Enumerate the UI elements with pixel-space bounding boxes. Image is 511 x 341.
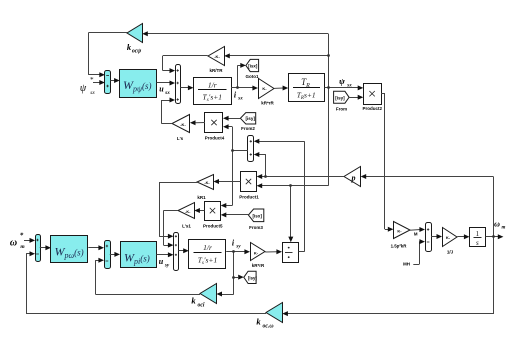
gain L's1 [178,203,195,229]
product block Product1 (p*w * psi) [239,172,259,200]
svg-text:K-: K- [397,228,402,233]
wire M into sum6 [410,227,425,232]
svg-text:1/r: 1/r [203,243,212,252]
wire psi net vertical (x=328.3) [328,34,330,186]
svg-text:1/r: 1/r [208,81,217,90]
svg-text:ψ: ψ [339,76,345,86]
wire divider out up into S5 [254,139,305,252]
wire w_m down to k_oc_w feedback [282,311,493,316]
wire S6 to stator TF2 [178,248,189,253]
node psi_sx label [339,76,352,89]
wire S4 to Wp_i [110,252,120,257]
gain kR1 [197,175,214,201]
wire gain to rotor TF [275,86,289,91]
svg-text:oc.ω: oc.ω [262,324,273,330]
svg-text:Goto1: Goto1 [246,74,259,79]
wire kR/TR out to sum2 top input [163,56,208,74]
node i_sx label [234,91,243,102]
node k_oci label [191,296,205,309]
wire ws net (S5 out, vertical x=232.3) [232,127,248,206]
svg-text:-K-: -K- [180,122,186,127]
transfer fn block TR over TR*s+1 (rotor flux) [289,74,325,102]
svg-text:p: p [351,174,356,183]
svg-text:kR/TR: kR/TR [209,68,223,73]
svg-text:kR1: kR1 [197,195,206,200]
gain kR*rR (current channel) [251,243,266,269]
svg-text:-K-: -K- [185,210,191,214]
svg-text:MH: MH [403,261,410,266]
wire p out to Product1 input1 [257,174,345,179]
integrator block 1/s [470,228,486,247]
wire wm feedback into p [361,174,494,179]
svg-text:L's1: L's1 [182,223,191,228]
wire From3 to Product5 [221,212,249,217]
svg-text:ω: ω [494,220,500,229]
svg-text:1/J: 1/J [447,250,454,255]
svg-text:Product2: Product2 [363,106,383,111]
node wm_ref input label [10,232,25,251]
wire p line branch up into S5 [254,152,266,177]
svg-text:sx: sx [164,90,170,96]
gain k_oc_psi (flux feedback, cyan) [127,24,143,43]
svg-text:sx: sx [90,90,95,96]
svg-text:K-: K- [254,250,259,255]
node w_m output label [494,220,505,231]
wire S3 to Wp_w [40,245,51,250]
wire psi tee to gain kR/TR [224,53,328,58]
wire k_oc_w out to S3 minus input [26,251,266,314]
node u_sy label [159,257,170,269]
node psi_sx_ref input label [80,76,95,96]
svg-text:Product5: Product5 [203,223,223,228]
wire wm ref into sum1w [24,238,35,243]
node k_oc_psi label [127,42,141,55]
gain kR/TR [208,47,225,73]
wire gain kR*rR2 into divider [265,249,282,254]
svg-text:u: u [159,85,164,94]
sum junction S1 (flux reference summing, cyan) [105,71,111,94]
wire L's1 out down to sum4 input2 [164,211,179,248]
svg-text:[isy]: [isy] [248,276,257,281]
wire u_sx Wp_psi to sum2 [157,81,176,86]
svg-text:s: s [476,239,479,247]
wire k_oc_psi out to sum1psi [88,33,127,78]
wire S7 to gain 1/J [431,234,442,239]
svg-text:1.5p²kR: 1.5p²kR [391,244,408,249]
svg-text:K-: K- [446,235,451,240]
from tag From3 [isx] [248,209,263,230]
gain L's [172,115,190,142]
gain p (pole pairs) [344,167,361,187]
from tag From [isy] [334,91,350,111]
wire Product2 out down to torque gain [381,94,393,232]
svg-text:sx: sx [237,97,243,102]
sum junction S7 (M - MH) [426,223,432,252]
wire From to Product2 [349,95,363,100]
gain 1/J [443,228,458,255]
wire psi down to Product1 / divider (y=185.8) [257,183,329,242]
wire Product1 out to gain kR1 [213,179,240,184]
transfer fn block 1/r over Ts*s+1 (stator, y-axis) [189,240,226,269]
sum junction S5 (p*w + slip = ws) [248,136,254,162]
svg-text:kR*rR: kR*rR [252,263,265,268]
svg-text:-K-: -K- [214,54,220,59]
svg-text:From: From [336,107,347,112]
gain kR*rR (flux channel) [259,79,275,106]
wire i_sy from TF2 to gain kR*rR 2 (with junctions) [226,249,250,294]
gain k_oci (current feedback, cyan) [200,284,217,304]
svg-text:ω: ω [10,238,17,249]
wire psi_sx from TR block to Product2 [325,85,364,90]
sum junction S6 (u_sy compensation, white) [174,233,179,271]
wire divider out (right, up to S5) [299,251,305,253]
product block Product5 (ws * isx) [203,202,223,229]
controller block Wp_i(s) (current) [121,242,157,268]
divide block (slip = kR*rR*isy / psi) [283,243,299,263]
svg-text:M: M [414,232,418,237]
transfer fn block 1/r over Ts*s+1 (stator, x-axis) [194,78,232,105]
svg-text:-K-: -K- [204,181,210,185]
gain 1.5p^2kR (torque const) [391,222,410,249]
from tag From2 [isy] [240,113,255,131]
svg-text:sy: sy [235,245,241,250]
goto tag [isy] [244,271,258,283]
wire sum1psi to Wp_psi [110,78,119,83]
wire u_sy Wp_i to sum4 [156,252,173,257]
wire Ls out up to sum2 bottom input [162,98,176,124]
svg-text:m: m [20,244,25,250]
wire i_sx from TF1 to gain kR*rR (with junction) [231,63,258,91]
svg-text:From2: From2 [241,126,255,131]
svg-text:[isx]: [isx] [252,213,262,218]
product block Product2 (psi * isy) [363,84,383,112]
wire 1/J to integrator [457,234,469,239]
wire MH into sum minus input [413,239,425,264]
svg-text:[isx]: [isx] [248,64,258,69]
gain k_oc_w (speed feedback, cyan) [266,303,283,323]
node u_sx label [159,85,170,97]
product block Product4 (ws * isy) [205,113,225,141]
controller block Wp_psi(s) [120,70,157,98]
svg-text:[isy]: [isy] [335,95,345,100]
node i_sy label [232,239,241,250]
svg-text:L's: L's [177,136,184,141]
wire From2 to Product4 [223,116,240,121]
wire ws net into Product5 upper input [221,203,233,208]
wire ws net into Product4 lower input [223,124,232,129]
svg-text:Ts′s+1: Ts′s+1 [198,256,218,267]
wire psi to k_oc_psi feedback (top) [142,31,328,36]
svg-text:m: m [501,226,505,231]
sum junction S4 (current reference, cyan) [105,241,111,269]
svg-text:ψ: ψ [80,83,87,94]
wire Product5 out to gain L's1 [194,208,204,213]
wire Product4 out to gain Ls [190,120,205,125]
svg-text:oci: oci [197,303,204,309]
wire psi ref into sum1psi [93,80,105,85]
wire w_m output (with junction x=493) [486,177,504,315]
svg-text:ocψ: ocψ [132,49,141,55]
wire i_sy down-left into gain k_oci [216,292,233,297]
wire kR1 out down to sum4 input1 [159,182,197,239]
svg-text:Product1: Product1 [239,195,259,200]
svg-text:u: u [159,257,164,266]
svg-text:From3: From3 [249,225,263,230]
svg-text:Ts′s+1: Ts′s+1 [203,93,223,104]
svg-text:[isy]: [isy] [245,116,255,121]
sum junction S3 (speed reference, cyan) [36,235,41,262]
wire k_oci out to S4 lower input [95,258,200,295]
controller block Wp_w(s) (speed) [51,236,88,263]
svg-text:Product4: Product4 [205,135,225,140]
wire Wp_w to S4 [88,245,104,250]
svg-text:1: 1 [476,230,480,238]
svg-text:kR*rR: kR*rR [261,101,274,106]
svg-text:*: * [20,232,24,240]
svg-text:TRs+1: TRs+1 [297,91,316,102]
node k_oc_w label [256,317,273,330]
goto tag Goto1 [isx] [246,59,259,79]
svg-text:K-: K- [262,86,267,91]
wire sum2 to stator TF1 [180,85,193,90]
sum junction S2 (u_sx compensation, white) [176,65,181,104]
svg-text:sy: sy [164,263,170,269]
junction dots [236,86,239,89]
